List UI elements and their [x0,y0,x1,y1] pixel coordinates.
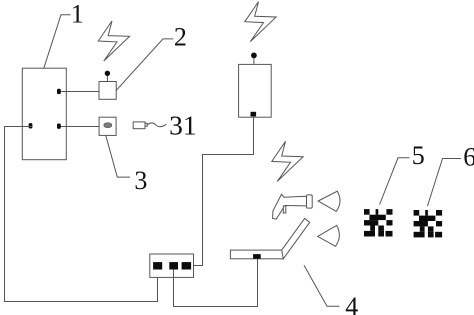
data matrix code 5 [364,209,393,236]
sound cone 2 (lower) [318,225,340,246]
nub of component 31 [145,123,147,126]
antenna stem of transmitter [253,58,255,64]
nozzle end cap [307,195,313,208]
wire from terminal 2 to scanner bed [174,259,258,307]
antenna ball of module 2 [105,71,110,76]
svg-text:31: 31 [169,109,197,140]
box 1 (main control unit) [22,68,66,160]
module 3 (speaker unit) [99,117,116,135]
svg-text:2: 2 [174,23,187,52]
leader line to label 1 [44,15,71,68]
terminal C on box 1 [29,123,33,128]
junction strip (terminal block) [150,254,194,277]
antenna stem of module 2 [106,76,108,82]
nozzle leg [283,206,286,213]
sound cone 1 (upper) [318,191,340,211]
scanner bed 4 [230,250,283,259]
wire from transmitter down to junction strip [194,116,254,265]
sensor square on scanner bed [253,254,261,259]
terminal square 3 [182,262,192,269]
terminal square 2 [169,262,178,269]
antenna ball of transmitter [251,53,257,59]
leader line to label 4 [304,265,340,306]
scanner arm of 4 [282,218,310,258]
wire from box 1 terminal C left and down to junction strip [5,127,158,302]
svg-text:5: 5 [412,141,425,170]
data matrix code 6 [414,210,443,237]
speaker ellipse inside module 3 [104,123,112,128]
module 2 (wireless transceiver) [99,82,116,100]
leader line to label 2 [116,39,173,91]
svg-text:3: 3 [134,166,147,195]
nozzle (sprayer head) [273,194,307,219]
leader line to label 5 [380,158,410,205]
lightning bolt C (middle, above nozzle) [272,141,303,181]
lightning bolt B (above transmitter box) [245,2,276,42]
terminal square 1 [153,262,162,269]
leader line to label 6 [428,159,462,207]
terminal square inside transmitter [251,112,257,117]
terminal B on box 1 [57,124,61,129]
wire from box 1 terminal B to module 3 [61,126,100,128]
leader line to label 3 [106,136,130,178]
component 31 (plug-in sensor) [133,122,145,129]
squiggle to label 31 [147,123,166,127]
svg-text:1: 1 [71,0,84,29]
svg-text:4: 4 [345,292,358,315]
transmitter box (upper middle) [239,64,272,117]
svg-text:6: 6 [463,143,474,172]
terminal A on box 1 [57,89,61,94]
wire from box 1 terminal A to module 2 [61,91,100,93]
lightning bolt A (wireless signal near module 2) [98,21,129,61]
